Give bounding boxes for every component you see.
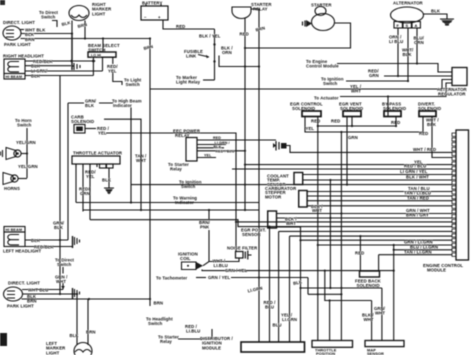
svg-text:RED: RED xyxy=(419,131,428,136)
svg-text:WHT: WHT xyxy=(364,317,374,322)
wire BLK/ORN xyxy=(219,56,259,67)
black tab left edge xyxy=(0,333,7,346)
wire GRN/WHT direct xyxy=(62,267,64,290)
svg-text:BLK: BLK xyxy=(431,9,441,14)
svg-text:SENSOR: SENSOR xyxy=(367,351,384,355)
wire TAN/LT GRN y254.7 xyxy=(379,254,452,256)
by-pass solenoid xyxy=(382,102,406,117)
wire beam select LO pin down xyxy=(92,57,94,75)
svg-text:DIRECT. LIGHT: DIRECT. LIGHT xyxy=(8,281,40,286)
wire mesh H0 xyxy=(301,287,382,289)
svg-text:WHT: WHT xyxy=(312,208,322,213)
wire unlabeled y231.4 xyxy=(279,230,452,232)
svg-text:HI BEAM: HI BEAM xyxy=(6,75,23,79)
wire long line y184.6 to ECM xyxy=(131,184,452,186)
svg-text:RED / BLU: RED / BLU xyxy=(404,164,426,169)
battery xyxy=(141,1,168,21)
wire RED/GRN to regulator xyxy=(384,75,452,77)
wire BRN from right marker light xyxy=(84,21,86,39)
wire BRN/PNK to coil xyxy=(208,210,210,262)
svg-text:MODULE: MODULE xyxy=(427,268,446,273)
wire BLU/ORN pin A xyxy=(416,28,418,64)
wire BLK vertical down to headlight ground xyxy=(71,34,73,71)
wire BLK from right marker light xyxy=(71,21,73,34)
wire BLK right headlight xyxy=(25,65,71,67)
svg-text:PARK LIGHT: PARK LIGHT xyxy=(7,304,34,309)
wire RED starter relay bus x245 xyxy=(244,19,246,211)
wire RED/BLU y169 xyxy=(232,168,452,170)
ground bottom park xyxy=(73,288,80,299)
ignition coil xyxy=(178,252,203,270)
svg-text:YEL: YEL xyxy=(98,131,107,136)
wire BRN starter relay bus x259 xyxy=(251,9,259,342)
svg-text:MODULE: MODULE xyxy=(202,345,221,350)
svg-text:HORNS: HORNS xyxy=(4,186,20,191)
svg-text:GRN / YEL: GRN / YEL xyxy=(208,275,230,280)
svg-text:BLK: BLK xyxy=(31,73,41,78)
wire vertical x341 down to TPS xyxy=(340,132,342,341)
svg-text:RED: RED xyxy=(311,119,320,124)
fusible link note xyxy=(184,49,209,59)
wire BRN to left marker xyxy=(87,299,89,345)
wire starter relay to starter xyxy=(245,23,351,48)
svg-text:Switch: Switch xyxy=(126,82,141,87)
wire by-pass up to actuator line xyxy=(387,97,389,117)
wire BLU into distributor xyxy=(278,231,280,342)
svg-text:Switch: Switch xyxy=(323,81,338,86)
throttle actuator xyxy=(72,151,123,169)
wire RED/GRN actuator xyxy=(89,164,91,220)
svg-text:BATTERY: BATTERY xyxy=(142,1,162,6)
svg-text:S: S xyxy=(406,23,409,28)
wire RED from battery xyxy=(163,20,215,29)
svg-text:ALTERNATOR: ALTERNATOR xyxy=(393,1,424,6)
svg-text:YEL/GRN: YEL/GRN xyxy=(18,164,38,169)
EGR position sensor xyxy=(241,211,277,237)
wire RED bus solenoids xyxy=(318,125,396,127)
svg-text:RIGHT HEADLIGHT: RIGHT HEADLIGHT xyxy=(3,54,44,59)
svg-text:BRN: BRN xyxy=(154,301,164,306)
wire BLK left headlight xyxy=(25,239,68,241)
svg-text:TAN / RED: TAN / RED xyxy=(407,195,429,200)
wire BLK to left marker xyxy=(76,294,78,345)
svg-text:YEL: YEL xyxy=(306,126,315,131)
wire ECM line y240.2 xyxy=(301,239,453,241)
scan smudge corner xyxy=(0,0,5,5)
to direct switch note xyxy=(39,10,59,27)
svg-text:BRN: BRN xyxy=(27,299,37,304)
wire WHT BLK stub xyxy=(21,29,25,31)
wire RED/BLK right headlight xyxy=(25,60,93,62)
node BLK junction xyxy=(71,32,73,34)
svg-text:LIGHT: LIGHT xyxy=(92,11,106,16)
wire MAP w1 xyxy=(371,301,373,341)
svg-text:BLK: BLK xyxy=(403,52,413,57)
wire V330 xyxy=(329,180,331,288)
svg-text:WHT: WHT xyxy=(286,221,296,226)
wire WHT BLU xyxy=(22,289,63,291)
svg-text:LIGHT: LIGHT xyxy=(46,350,60,355)
wire carb solenoid feed to x236 xyxy=(106,133,236,252)
svg-text:NOISE FILTER: NOISE FILTER xyxy=(227,246,258,251)
EGR control solenoid xyxy=(290,102,323,117)
wire bus x68 down to left headlight xyxy=(67,103,69,240)
svg-text:BLK / YEL: BLK / YEL xyxy=(199,34,221,39)
svg-text:ORN: ORN xyxy=(414,40,424,45)
svg-text:RED: RED xyxy=(331,119,340,124)
wire RED feedback solenoid xyxy=(359,236,361,271)
wire BLK bottom park xyxy=(22,293,77,295)
svg-text:RED: RED xyxy=(176,24,185,29)
wire WHT/RED to ECM xyxy=(287,146,453,153)
wire LT GRN/YEL y174.5 coolant1 xyxy=(303,174,452,176)
right headlight xyxy=(3,54,44,80)
left headlight hi beam xyxy=(3,227,41,254)
svg-text:REGULATOR: REGULATOR xyxy=(438,92,466,97)
wire GRN/LT GRN y243.2 xyxy=(318,244,452,246)
wire WHT/LT BLU coil to noise filter xyxy=(203,258,239,266)
svg-text:BLK: BLK xyxy=(102,178,112,183)
wire YEL/WHT to regulator xyxy=(150,80,452,90)
svg-text:WHT / RED: WHT / RED xyxy=(413,147,436,152)
svg-text:RED/BLK: RED/BLK xyxy=(34,244,55,249)
wire TPS w2 xyxy=(329,301,331,341)
wire GRN/WHT egr posit1 xyxy=(277,213,453,215)
svg-text:LI GRN / YEL: LI GRN / YEL xyxy=(400,169,428,174)
svg-text:WHT: WHT xyxy=(375,311,385,316)
wire H1 xyxy=(308,293,341,295)
svg-text:BRN: BRN xyxy=(25,37,35,42)
svg-text:LINK: LINK xyxy=(186,54,197,59)
feed back solenoid xyxy=(355,271,382,288)
svg-text:Control Module: Control Module xyxy=(306,64,339,69)
wire YEL eec relay long to ECM xyxy=(197,157,216,159)
distributor ignition module box xyxy=(200,336,305,352)
map sensor xyxy=(365,341,404,355)
svg-text:Light Relay: Light Relay xyxy=(176,80,201,85)
svg-text:To Tachometer: To Tachometer xyxy=(156,276,188,281)
wire RED eec relay to noise capacitor xyxy=(197,139,276,141)
wire GRN/YEL coil line xyxy=(202,270,394,271)
wire RED/BLU into distributor xyxy=(269,227,271,342)
wire BRN park light to BRN bus xyxy=(21,38,151,40)
carburator stepper motor xyxy=(265,186,307,207)
starter relay xyxy=(232,2,272,19)
wire GRN/BLK + to high beam indicator xyxy=(68,102,113,104)
alternator regulator xyxy=(437,68,468,97)
svg-text:PARK LIGHT: PARK LIGHT xyxy=(4,42,31,47)
coolant temp sensor xyxy=(267,173,303,187)
wire RED/BLK left headlight xyxy=(25,246,73,248)
svg-text:YEL: YEL xyxy=(204,154,212,158)
wire RED/BLU eec relay to bus xyxy=(197,150,245,152)
wire BLK/YEL vertical xyxy=(214,29,216,80)
svg-text:BLK: BLK xyxy=(85,103,95,108)
wire BLK right headlight to bus xyxy=(25,75,93,77)
svg-text:Relay: Relay xyxy=(160,339,172,344)
wire BLK alternator to ground xyxy=(424,14,448,19)
wire WHT/BLK divert xyxy=(432,117,452,158)
svg-text:BLK: BLK xyxy=(54,225,64,230)
wire EGR control right pin long down to TPS xyxy=(317,117,319,341)
svg-text:Relay: Relay xyxy=(170,167,182,172)
svg-text:YEL/GRN: YEL/GRN xyxy=(16,140,36,145)
svg-text:PNK: PNK xyxy=(200,225,210,230)
svg-text:WHT: WHT xyxy=(351,89,361,94)
svg-text:Indicator: Indicator xyxy=(113,103,132,108)
wire LT GRN eec relay xyxy=(197,144,226,146)
wire vent red xyxy=(351,117,353,127)
wire BLU/LT GRN y248.7 xyxy=(394,249,452,251)
ground alternator xyxy=(440,19,454,26)
svg-text:SENSOR: SENSOR xyxy=(242,232,261,237)
wire warning line y202.5 xyxy=(76,202,259,204)
wire YEL/LT GRN into distributor xyxy=(289,236,291,342)
wire YEL/GRN horn feed xyxy=(26,128,28,178)
svg-text:RED: RED xyxy=(355,251,364,256)
wire by-pass red xyxy=(395,117,397,127)
svg-text:BLU: BLU xyxy=(265,305,274,310)
wire stepper4 BLK/WHT xyxy=(307,205,452,207)
wire YEL egr control to y132 line xyxy=(305,117,423,133)
svg-text:TAN / LI.GRN: TAN / LI.GRN xyxy=(404,250,432,255)
wire BLK park light to marker junction xyxy=(21,33,72,35)
left marker light xyxy=(46,341,92,355)
svg-text:HI BEAM: HI BEAM xyxy=(6,228,23,232)
wire actuator line y219.7 with corner to ECM line xyxy=(90,220,452,227)
wire RED/YEL carb solenoid xyxy=(85,128,96,130)
svg-text:BLK / WHT: BLK / WHT xyxy=(406,175,429,180)
alternator xyxy=(391,1,424,29)
wire feedback right to TAN/LT GRN xyxy=(378,255,380,271)
EEC power relay xyxy=(173,129,201,162)
svg-text:LI.BLU: LI.BLU xyxy=(186,329,200,334)
svg-text:LI BLU: LI BLU xyxy=(389,39,403,44)
wire BLK eec relay xyxy=(197,147,224,149)
wire YEL y164.6 xyxy=(245,164,452,166)
svg-text:GRN: GRN xyxy=(80,191,90,196)
svg-text:BLK: BLK xyxy=(31,238,41,243)
svg-text:BRN / GRY: BRN / GRY xyxy=(406,213,429,218)
svg-text:WHT BLU: WHT BLU xyxy=(28,287,48,292)
direct light bottom (park light) xyxy=(4,281,41,309)
svg-text:LI.GRN: LI.GRN xyxy=(282,317,297,322)
throttle position sensor xyxy=(312,341,353,355)
wire ECM line y221.9 xyxy=(236,221,452,223)
divert solenoid xyxy=(418,102,441,117)
BRN bus vertical xyxy=(149,39,151,307)
wire LT GRN right headlight to beam select xyxy=(25,70,103,72)
horn 2 xyxy=(3,173,27,185)
svg-text:COIL: COIL xyxy=(180,256,191,261)
svg-text:To Actuator: To Actuator xyxy=(314,96,339,101)
svg-text:Switch: Switch xyxy=(41,15,56,20)
wire RED/YEL actuator xyxy=(75,164,77,203)
svg-text:YEL: YEL xyxy=(108,69,117,74)
svg-text:BLU: BLU xyxy=(273,323,282,328)
wire MAP w2 GRN/WHT xyxy=(381,288,383,341)
wire unlabeled y236.1 from bus corner xyxy=(290,235,453,237)
horn 1 xyxy=(1,148,29,160)
wire actuator line y210 xyxy=(83,209,259,211)
wire ORN/LT BLU pin F xyxy=(397,28,399,76)
starter xyxy=(303,3,335,31)
svg-text:GRN: GRN xyxy=(348,135,358,140)
noise suppressor capacitor on RED line xyxy=(273,141,287,151)
ground right headlight xyxy=(72,63,80,70)
carb solenoid xyxy=(71,115,94,134)
svg-text:Switch: Switch xyxy=(148,321,163,326)
wire BRN/GRY egr posit2 xyxy=(277,217,453,219)
svg-text:RED: RED xyxy=(213,136,221,140)
svg-text:LO HI: LO HI xyxy=(91,54,101,58)
wire WHT/BLK pin S xyxy=(407,28,409,81)
wire TAN/RED stepper3 xyxy=(307,200,452,202)
noise filter xyxy=(227,246,258,260)
svg-text:THROTTLE ACTUATOR: THROTTLE ACTUATOR xyxy=(73,151,123,156)
svg-text:SOLENOID: SOLENOID xyxy=(71,119,94,124)
wire MAP w3 xyxy=(393,245,395,341)
wire BRN bottom park to bus xyxy=(22,298,151,300)
svg-text:A: A xyxy=(415,23,418,28)
svg-text:GRN / YEL: GRN / YEL xyxy=(225,268,247,273)
wire TAN/BLU stepper1 xyxy=(307,191,452,193)
wire actuator 2 xyxy=(82,164,84,212)
svg-text:WHT: WHT xyxy=(56,279,66,284)
park light top (direct light) xyxy=(3,20,35,47)
wire vertical x131 xyxy=(130,108,132,203)
svg-text:YEL: YEL xyxy=(414,159,423,164)
wire BLK/WHT y180 coolant2 xyxy=(303,179,452,181)
svg-text:DIRECT. LIGHT: DIRECT. LIGHT xyxy=(3,20,35,25)
wire GRN egr vent xyxy=(346,117,348,185)
svg-text:RED: RED xyxy=(240,32,249,37)
svg-text:BRN: BRN xyxy=(86,330,96,335)
svg-text:Switch: Switch xyxy=(17,123,32,128)
wire RED/YEL from beam select xyxy=(113,57,122,85)
svg-text:GRN: GRN xyxy=(369,73,379,78)
wire TAN/LT BLU stepper2 xyxy=(307,195,452,197)
node BRN marker junction xyxy=(84,37,86,39)
wire BLK actuator to ground xyxy=(108,168,110,188)
svg-text:ORN: ORN xyxy=(222,50,232,55)
ECM pins xyxy=(452,133,456,256)
ground actuator xyxy=(104,188,114,195)
wire H2 xyxy=(325,271,372,301)
svg-text:+: + xyxy=(158,15,161,20)
wire vertical x137 xyxy=(104,119,141,210)
svg-text:BLK: BLK xyxy=(427,122,437,127)
wire beam select feed from BRN line xyxy=(102,39,104,53)
wire egr posit3 down xyxy=(277,227,301,342)
ground left headlight xyxy=(73,236,80,248)
svg-text:RED / BLU: RED / BLU xyxy=(216,149,235,153)
svg-text:Switch: Switch xyxy=(57,262,72,267)
svg-text:MOTOR: MOTOR xyxy=(265,194,282,199)
wire beam select HI pin down xyxy=(102,57,104,71)
engine control module connector xyxy=(456,130,469,260)
svg-text:BLK: BLK xyxy=(70,333,80,338)
EGR vent solenoid xyxy=(339,102,363,117)
beam select switch xyxy=(88,43,120,58)
right marker light xyxy=(69,2,112,21)
